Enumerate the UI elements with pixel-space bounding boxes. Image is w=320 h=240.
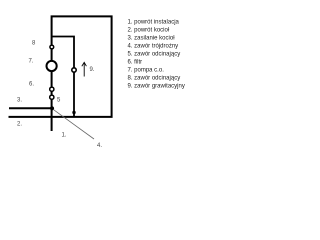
valve 9 (zawór grawitacyjny) [72,68,76,72]
svg-text:2.: 2. [17,122,22,128]
flow arrow up beside valve 9 [83,63,85,77]
svg-text:6.: 6. [29,82,34,88]
svg-text:6. filtr: 6. filtr [128,60,143,66]
svg-text:3.: 3. [17,98,22,104]
wire supply line 3 [9,107,52,109]
svg-text:2. powrót kocioł: 2. powrót kocioł [128,28,170,34]
node junction branch pipe / bottom line [72,111,75,114]
svg-text:9.: 9. [90,67,95,73]
leader line to label 4 [53,110,94,139]
node junction main pipe / line 3 [50,106,54,110]
svg-text:4. zawór trójdrożny: 4. zawór trójdrożny [128,44,179,50]
svg-text:4.: 4. [97,143,102,149]
filter 6 [50,87,54,91]
svg-text:8. zawór odcinający: 8. zawór odcinający [128,76,181,82]
svg-text:7. pompa c.o.: 7. pompa c.o. [128,68,165,74]
svg-text:9. zawór grawitacyjny: 9. zawór grawitacyjny [128,84,185,90]
valve 5 (zawór odcinający) [50,95,54,99]
svg-text:1.: 1. [62,133,67,139]
svg-text:7.: 7. [29,59,34,65]
wire branch to gravity valve pipe [52,37,74,117]
svg-text:3. zasilanie kocioł: 3. zasilanie kocioł [128,36,176,42]
svg-text:1. powrót instalacja: 1. powrót instalacja [128,20,180,26]
wire main loop: main vertical pipe, top horizontal, right vertical, bottom horizontal (return) [9,16,112,131]
svg-text:5. zawór odcinający: 5. zawór odcinający [128,52,181,58]
pump 7 (pompa c.o.) [47,61,57,71]
valve 8 (zawór odcinający) [50,45,54,49]
